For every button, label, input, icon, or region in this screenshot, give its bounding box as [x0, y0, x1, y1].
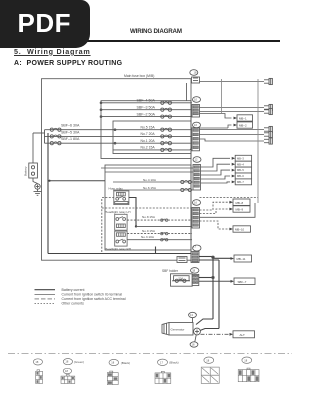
- svg-text:18: 18: [206, 358, 209, 362]
- svg-text:No.2 15A: No.2 15A: [141, 146, 156, 150]
- svg-text:18: 18: [194, 71, 197, 75]
- svg-text:Current from ignition switch A: Current from ignition switch ACC termina…: [62, 297, 126, 301]
- svg-text:SBF–6 30A: SBF–6 30A: [61, 124, 80, 128]
- svg-text:Main fuse box (M/B): Main fuse box (M/B): [124, 74, 154, 78]
- svg-text:MB–7: MB–7: [237, 180, 244, 184]
- svg-text:12: 12: [195, 158, 198, 162]
- svg-text:16: 16: [194, 123, 197, 127]
- svg-text:18: 18: [192, 269, 195, 273]
- svg-text:No.3 10A: No.3 10A: [141, 235, 155, 239]
- svg-text:Headlight relay RH: Headlight relay RH: [105, 247, 131, 251]
- svg-text:(Black): (Black): [169, 361, 178, 365]
- svg-text:ALT: ALT: [240, 333, 245, 337]
- svg-text:SBF–4 50A: SBF–4 50A: [137, 99, 156, 103]
- svg-text:No.7 20A: No.7 20A: [141, 132, 156, 136]
- svg-text:SBF–5 30A: SBF–5 30A: [61, 130, 80, 134]
- svg-text:Headlight relay LH: Headlight relay LH: [105, 210, 130, 214]
- svg-text:18: 18: [65, 360, 68, 364]
- svg-text:No.9 15A: No.9 15A: [142, 229, 156, 233]
- svg-text:17: 17: [160, 360, 163, 364]
- svg-text:MB–6: MB–6: [237, 174, 244, 178]
- svg-text:SBF–7: SBF–7: [238, 280, 247, 284]
- svg-text:50A: 50A: [179, 276, 184, 280]
- svg-text:Other currents: Other currents: [62, 302, 85, 306]
- svg-text:MB–4: MB–4: [237, 162, 244, 166]
- svg-text:SBF–2 50A: SBF–2 50A: [137, 112, 156, 116]
- svg-text:SBF–3 50A: SBF–3 50A: [137, 105, 156, 109]
- svg-text:No.1 20A: No.1 20A: [141, 139, 156, 143]
- svg-text:18: 18: [192, 343, 195, 347]
- svg-text:Horn relay: Horn relay: [109, 186, 124, 190]
- svg-text:(Black): (Black): [121, 361, 130, 365]
- svg-text:MB–5: MB–5: [237, 168, 244, 172]
- svg-text:No.5 15A: No.5 15A: [141, 125, 156, 129]
- svg-text:Battery current: Battery current: [62, 288, 85, 292]
- svg-text:Battery: Battery: [24, 166, 28, 176]
- svg-text:10: 10: [194, 98, 197, 102]
- svg-text:MB–2: MB–2: [239, 123, 247, 127]
- svg-text:18: 18: [111, 361, 114, 365]
- svg-text:No.4 10A: No.4 10A: [143, 178, 157, 182]
- svg-text:MB–10: MB–10: [235, 228, 245, 232]
- svg-text:SBF holder: SBF holder: [162, 269, 179, 273]
- svg-text:18: 18: [244, 358, 247, 362]
- svg-text:MB–3: MB–3: [237, 156, 244, 160]
- svg-text:Current from ignition switch I: Current from ignition switch IG terminal: [62, 293, 123, 297]
- svg-text:(Green): (Green): [74, 360, 84, 364]
- svg-text:MB–11: MB–11: [237, 257, 246, 261]
- svg-text:SBF–1 80A: SBF–1 80A: [61, 137, 80, 141]
- svg-text:16: 16: [194, 201, 197, 205]
- svg-text:MB–1: MB–1: [239, 116, 247, 120]
- svg-text:No.8 15A: No.8 15A: [142, 215, 156, 219]
- svg-text:MB–8: MB–8: [236, 201, 244, 205]
- svg-text:Generator: Generator: [171, 328, 185, 332]
- svg-text:13: 13: [190, 313, 193, 317]
- svg-text:18: 18: [35, 360, 38, 364]
- svg-text:No.6 15A: No.6 15A: [143, 186, 157, 190]
- svg-text:MB–9: MB–9: [236, 208, 244, 212]
- svg-text:18: 18: [65, 369, 68, 373]
